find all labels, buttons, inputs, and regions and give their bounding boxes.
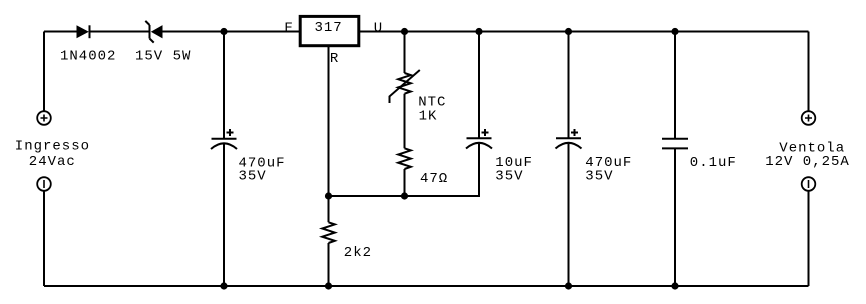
svg-text:35V: 35V (495, 169, 523, 185)
svg-text:0.1uF: 0.1uF (690, 155, 737, 171)
wire C3 column lower (568, 144, 570, 286)
svg-text:35V: 35V (585, 169, 613, 185)
node 2k2 bottom (325, 282, 332, 289)
capacitor C4 0.1uF (662, 139, 688, 149)
node C4 bottom (671, 282, 678, 289)
svg-text:2k2: 2k2 (344, 245, 372, 261)
node 47 ohm bottom (401, 192, 408, 199)
node C3 top (565, 28, 572, 35)
wire NTC column upper (404, 32, 406, 74)
wire top rail left segment (44, 31, 77, 33)
capacitor C2 10uF 35V (466, 129, 492, 149)
resistor 2k2 (322, 222, 335, 243)
node NTC top (401, 28, 408, 35)
wire C4 column lower (674, 148, 676, 286)
capacitor C3 470uF 35V (556, 129, 582, 149)
wire C1 column upper (223, 32, 225, 139)
node adj junction (325, 192, 332, 199)
node C1 bottom (220, 282, 227, 289)
wire 2k2 to bottom rail (328, 243, 330, 286)
thermistor NTC 1K (390, 70, 420, 103)
wire regulator R pin down (328, 47, 330, 222)
wire NTC to 47 ohm (404, 94, 406, 149)
output terminal neutral (802, 177, 816, 191)
svg-text:Ingresso: Ingresso (15, 139, 90, 155)
node C4 top (671, 28, 678, 35)
capacitor C1 470uF 35V (211, 129, 237, 149)
wire left column lower (43, 191, 45, 286)
wire top rail U pin to right (360, 31, 809, 33)
wire C2 column lower (478, 144, 480, 196)
output terminal plus (802, 111, 816, 125)
svg-text:15V 5W: 15V 5W (135, 49, 191, 65)
wire adj mid horizontal (329, 195, 481, 197)
input terminal neutral (37, 177, 51, 191)
svg-text:317: 317 (315, 20, 343, 36)
wire top rail between diode and zener (91, 31, 150, 33)
diode D1 1N4002 (77, 25, 90, 38)
input terminal plus (37, 111, 51, 125)
svg-text:24Vac: 24Vac (29, 154, 76, 170)
zener diode 15V 5W (145, 21, 162, 43)
wire right column upper (808, 32, 810, 112)
svg-text:47Ω: 47Ω (420, 171, 448, 187)
wire C1 column lower (223, 144, 225, 286)
wire 47 ohm to mid (404, 169, 406, 196)
svg-text:E: E (285, 20, 294, 36)
wire top rail zener to regulator E pin (163, 31, 300, 33)
wire C3 column upper (568, 32, 570, 139)
wire C2 column upper (478, 32, 480, 139)
op-amp U1 regulator 317 box (300, 16, 359, 45)
wire right column lower (808, 191, 810, 286)
svg-text:1K: 1K (419, 108, 438, 124)
wire C4 column upper (674, 32, 676, 139)
node C2 top (475, 28, 482, 35)
resistor 47 ohm (398, 148, 411, 169)
wire left column upper (43, 32, 45, 112)
svg-text:35V: 35V (239, 169, 267, 185)
wire bottom rail (44, 285, 809, 287)
node C1 top (220, 28, 227, 35)
svg-text:R: R (330, 51, 339, 67)
svg-text:12V 0,25A: 12V 0,25A (765, 154, 850, 170)
svg-text:1N4002: 1N4002 (60, 49, 116, 65)
node C3 bottom (565, 282, 572, 289)
svg-text:U: U (374, 20, 383, 36)
